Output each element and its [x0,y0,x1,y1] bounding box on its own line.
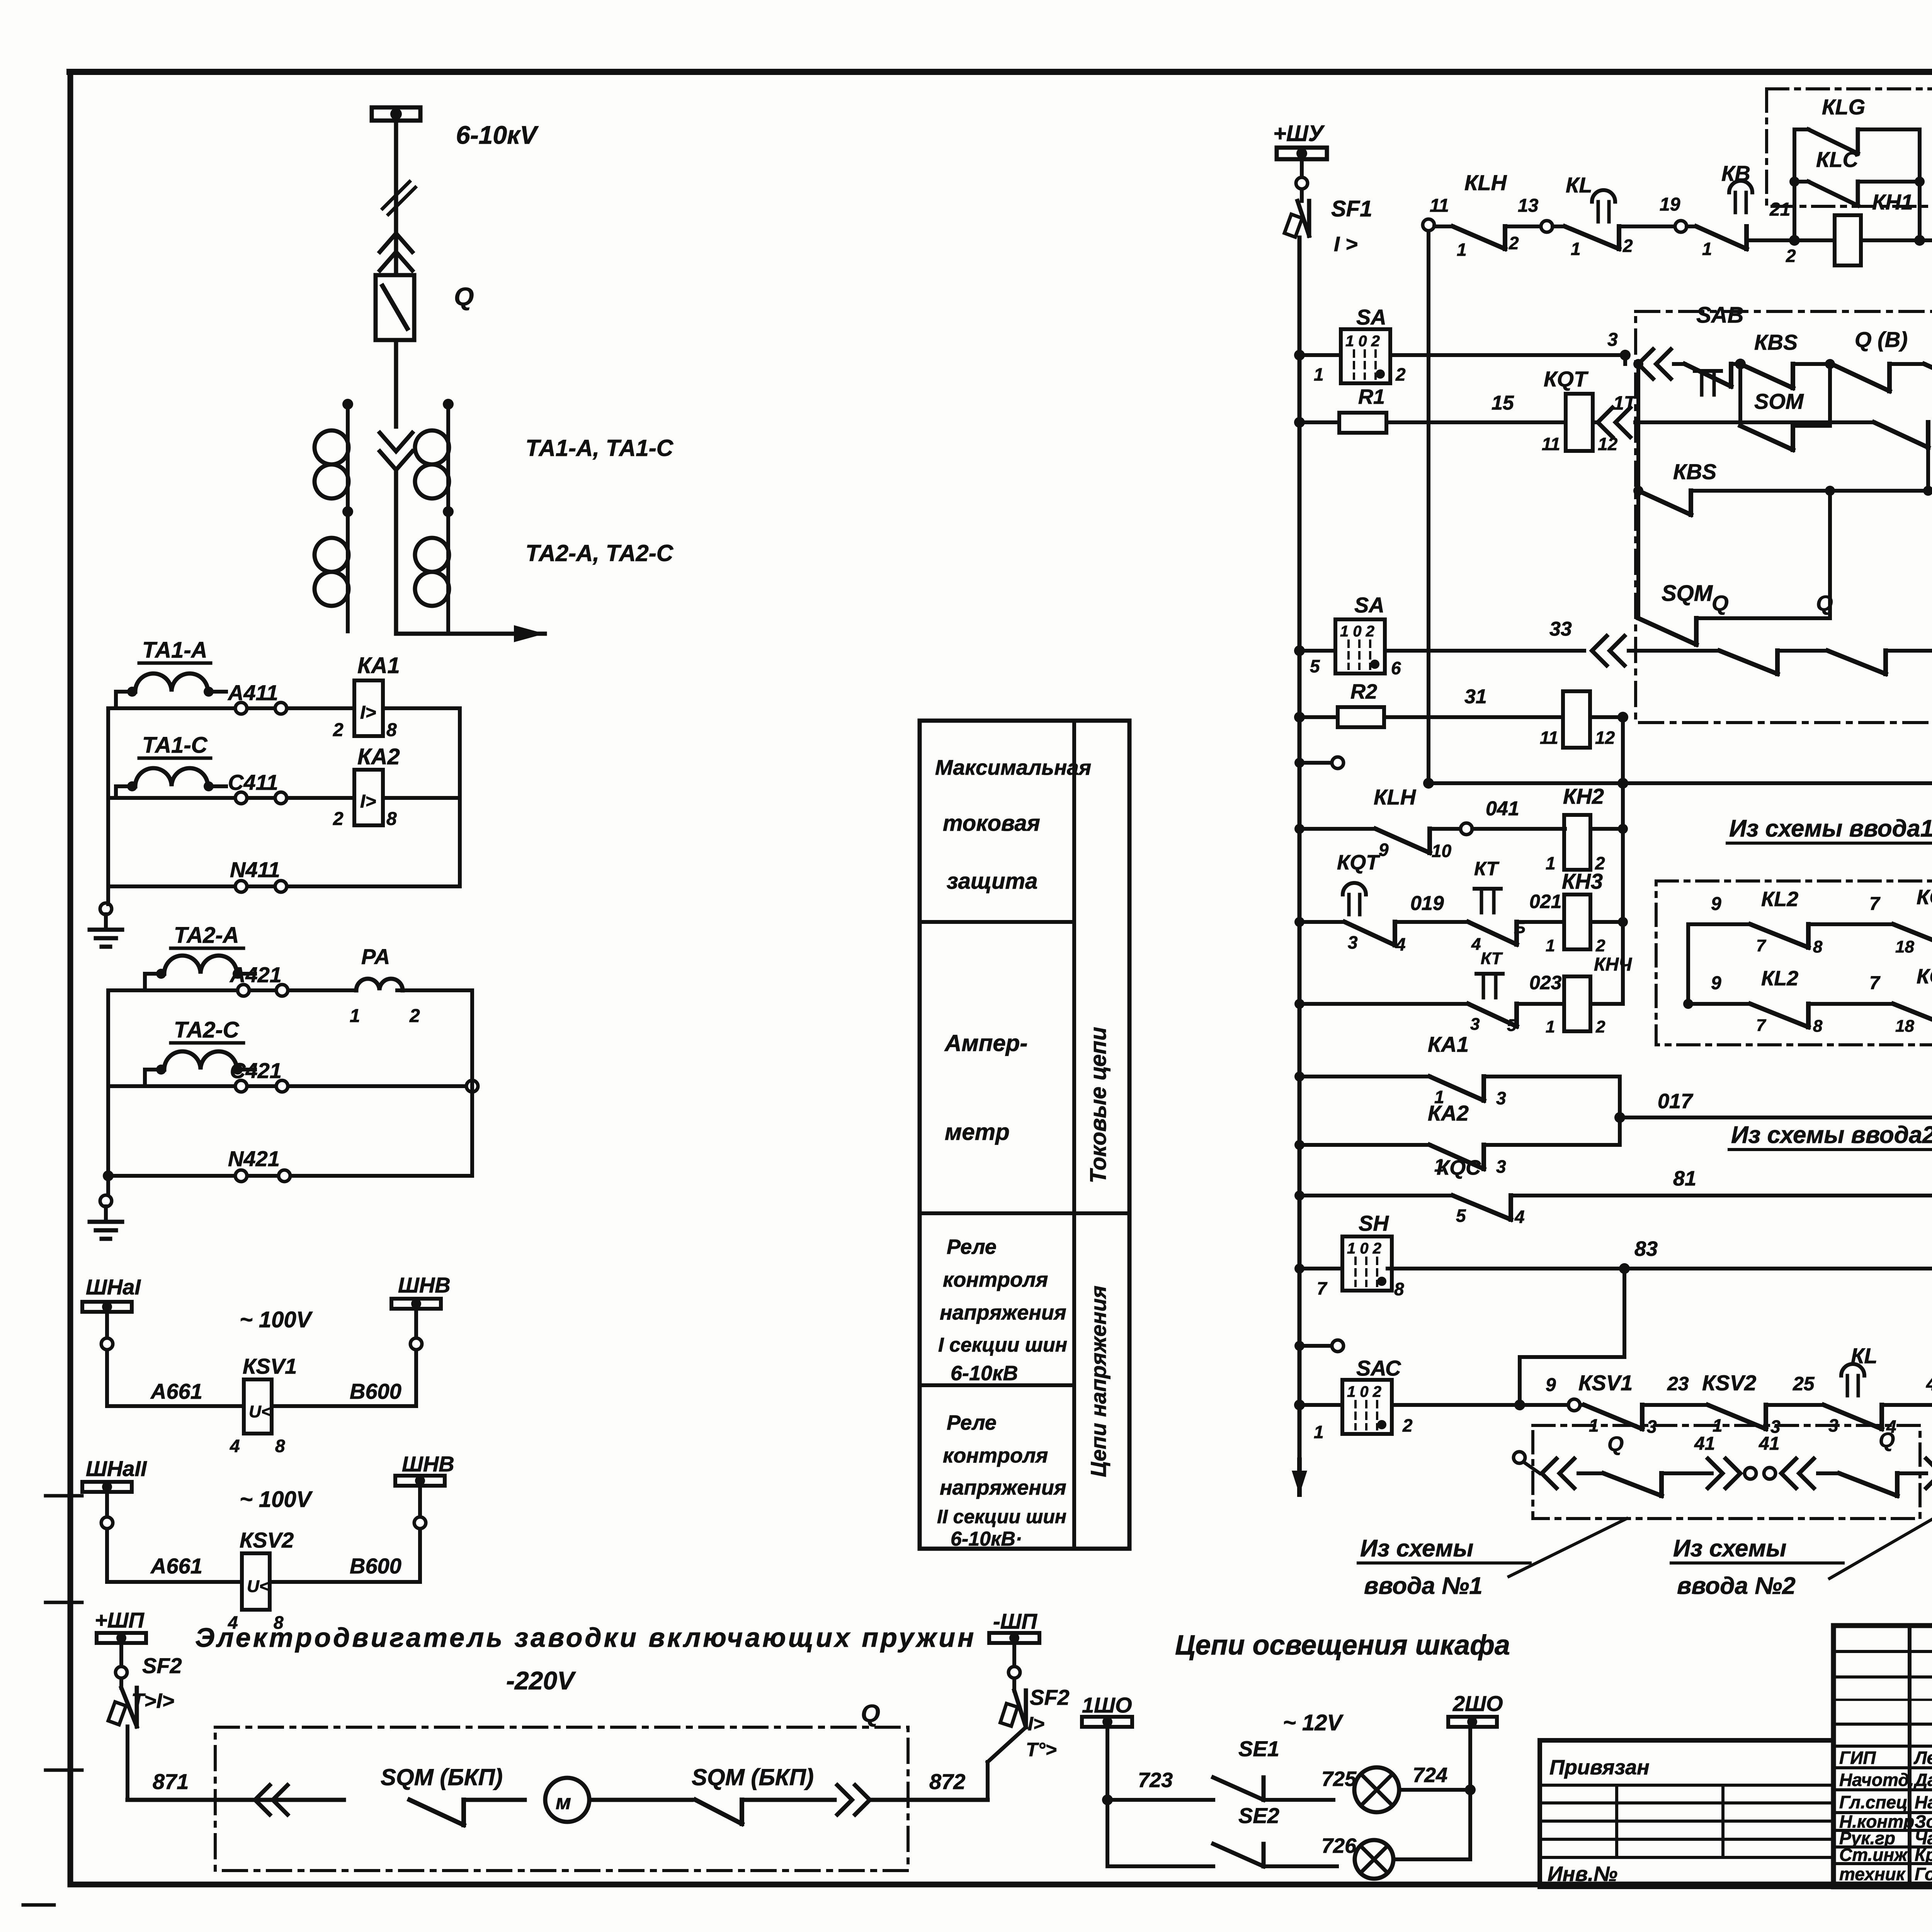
svg-text:9: 9 [1546,1375,1556,1395]
svg-text:021: 021 [1529,891,1561,912]
svg-text:8: 8 [1813,1017,1823,1036]
svg-text:1: 1 [1457,240,1467,260]
svg-text:КQТ: КQТ [1544,367,1589,391]
svg-text:7: 7 [1869,973,1881,993]
svg-text:1 0 2: 1 0 2 [1340,623,1374,640]
svg-text:41: 41 [1694,1434,1715,1454]
svg-text:А661: А661 [150,1379,202,1403]
svg-text:~ 100V: ~ 100V [240,1487,313,1512]
svg-text:43: 43 [1926,1373,1932,1395]
svg-text:23: 23 [1667,1373,1689,1395]
svg-text:КQ: КQ [1917,886,1932,909]
svg-text:Q: Q [1607,1432,1624,1456]
svg-text:ввода №2: ввода №2 [1677,1573,1796,1599]
svg-text:2: 2 [333,809,344,829]
svg-text:Гл.спец: Гл.спец [1839,1792,1908,1812]
svg-text:7: 7 [1756,936,1767,955]
svg-text:напряжения: напряжения [940,1476,1066,1499]
svg-text:11: 11 [1542,434,1560,454]
svg-text:Т°>: Т°> [1026,1739,1057,1760]
svg-text:КSV1: КSV1 [243,1354,297,1378]
svg-text:метр: метр [945,1119,1010,1145]
svg-text:SF2: SF2 [1030,1685,1070,1709]
svg-text:ТА2-С: ТА2-С [174,1017,240,1043]
svg-text:КL2: КL2 [1761,888,1798,911]
svg-text:Кравцова: Кравцова [1915,1845,1932,1865]
svg-text:Привязан: Привязан [1549,1756,1650,1779]
svg-text:ТА1-А: ТА1-А [142,638,207,663]
svg-text:017: 017 [1658,1090,1694,1113]
svg-text:8: 8 [1813,937,1823,956]
svg-text:Нашельский: Нашельский [1915,1792,1932,1812]
svg-text:ШНаI: ШНаI [86,1275,141,1299]
svg-text:Из схемы: Из схемы [1360,1535,1473,1562]
svg-text:КQТ: КQТ [1337,851,1380,874]
svg-text:1: 1 [1546,853,1556,873]
svg-text:1: 1 [1546,1017,1555,1036]
svg-text:81: 81 [1673,1167,1696,1190]
svg-text:8: 8 [386,720,397,740]
svg-text:КН2: КН2 [1563,784,1604,808]
svg-text:ШНВ: ШНВ [402,1452,454,1476]
svg-text:+ШП: +ШП [95,1608,145,1632]
svg-text:КQС: КQС [1437,1156,1481,1179]
svg-text:ТА2-А: ТА2-А [174,923,239,948]
svg-text:7: 7 [1869,894,1881,914]
svg-text:ТА2-А, ТА2-С: ТА2-А, ТА2-С [526,540,674,566]
svg-text:8: 8 [275,1436,285,1456]
svg-text:4: 4 [230,1436,240,1456]
svg-text:7: 7 [1756,1016,1767,1035]
svg-text:7: 7 [1317,1278,1328,1298]
svg-text:R1: R1 [1358,385,1385,408]
svg-text:КВS: КВS [1754,330,1798,354]
svg-text:2: 2 [1395,364,1406,384]
svg-text:U<: U< [249,1402,271,1421]
svg-text:токовая: токовая [943,811,1040,836]
svg-text:Цепи освещения шкафа: Цепи освещения шкафа [1175,1630,1510,1661]
svg-text:18: 18 [1895,937,1914,956]
svg-text:Реле: Реле [947,1235,997,1259]
svg-text:U<: U< [247,1577,269,1596]
svg-text:872: 872 [929,1769,965,1794]
svg-text:18: 18 [1895,1017,1914,1036]
svg-text:726: 726 [1321,1834,1357,1857]
svg-text:I>: I> [360,791,376,812]
svg-text:8: 8 [1394,1279,1404,1299]
svg-text:2: 2 [1595,1017,1605,1036]
svg-text:1: 1 [1546,936,1555,955]
svg-text:КА1: КА1 [1428,1032,1469,1056]
svg-text:КLС: КLС [1816,147,1859,172]
svg-text:N411: N411 [230,857,280,882]
svg-text:8: 8 [386,809,397,829]
svg-text:КН1: КН1 [1872,190,1913,214]
svg-text:SQМ: SQМ [1662,581,1713,606]
svg-text:I>: I> [360,702,376,723]
svg-text:SQМ (БКП): SQМ (БКП) [381,1764,503,1790]
svg-text:33: 33 [1549,618,1572,640]
svg-text:019: 019 [1410,892,1444,915]
svg-text:КSV2: КSV2 [240,1528,294,1552]
svg-text:1 0 2: 1 0 2 [1347,1383,1381,1400]
svg-text:11: 11 [1540,728,1558,748]
svg-text:ШНВ: ШНВ [398,1273,451,1297]
svg-text:Ст.инж: Ст.инж [1839,1845,1908,1865]
svg-text:13: 13 [1518,196,1539,216]
svg-text:Токовые цепи: Токовые цепи [1086,1027,1111,1184]
svg-text:1: 1 [1314,364,1324,384]
svg-text:31: 31 [1464,685,1487,708]
svg-text:1ШО: 1ШО [1082,1693,1132,1717]
svg-text:-220V: -220V [506,1666,576,1695]
svg-text:Максимальная: Максимальная [935,755,1091,779]
svg-text:25: 25 [1793,1373,1815,1395]
svg-text:А421: А421 [229,963,282,987]
svg-text:КА1: КА1 [357,653,400,678]
svg-text:5: 5 [1507,1016,1517,1035]
svg-text:2: 2 [409,1006,420,1026]
svg-text:1 0 2: 1 0 2 [1345,333,1380,350]
svg-text:Q: Q [1879,1429,1895,1452]
svg-text:724: 724 [1413,1764,1447,1787]
svg-text:КА2: КА2 [1428,1101,1469,1125]
svg-text:4: 4 [1514,1207,1525,1227]
svg-text:SF1: SF1 [1331,196,1372,221]
svg-text:ТА1-А, ТА1-С: ТА1-А, ТА1-С [526,435,674,461]
svg-text:725: 725 [1321,1767,1357,1791]
svg-text:SF2: SF2 [142,1653,182,1678]
svg-text:А661: А661 [150,1554,202,1578]
svg-text:С421: С421 [230,1058,282,1083]
svg-text:КLН: КLН [1374,785,1417,809]
svg-text:21: 21 [1769,199,1790,220]
svg-text:2: 2 [1622,236,1633,256]
svg-text:С411: С411 [228,770,278,794]
svg-text:Из схемы ввода2: Из схемы ввода2 [1731,1122,1932,1148]
svg-text:2: 2 [1786,246,1796,266]
svg-text:Леонов: Леонов [1913,1748,1932,1768]
svg-text:КSV2: КSV2 [1702,1371,1756,1395]
svg-text:1: 1 [1314,1422,1324,1442]
svg-text:I>: I> [1028,1713,1044,1735]
svg-text:КL2: КL2 [1761,967,1798,990]
svg-text:КА2: КА2 [357,744,400,769]
svg-text:А411: А411 [227,680,278,705]
svg-text:3: 3 [1496,1088,1506,1108]
svg-text:5: 5 [1310,656,1320,676]
svg-text:Инв.№: Инв.№ [1548,1862,1617,1886]
svg-text:11: 11 [1430,196,1449,216]
svg-text:723: 723 [1138,1769,1173,1792]
svg-text:I секции шин: I секции шин [938,1334,1067,1356]
svg-text:SА: SА [1354,593,1384,617]
svg-text:1: 1 [350,1006,360,1026]
svg-text:9: 9 [1711,973,1721,993]
svg-text:КSV1: КSV1 [1578,1371,1633,1395]
svg-text:В600: В600 [350,1379,401,1403]
svg-text:Из схемы ввода1: Из схемы ввода1 [1729,815,1932,842]
svg-text:контроля: контроля [943,1444,1048,1467]
svg-text:SАС: SАС [1356,1356,1401,1380]
svg-text:Q: Q [454,282,474,311]
svg-text:2ШО: 2ШО [1452,1691,1503,1716]
svg-text:871: 871 [153,1769,189,1794]
svg-text:N421: N421 [228,1146,280,1171]
svg-text:2: 2 [1595,936,1605,955]
svg-text:Электродвигатель заводки вкл: Электродвигатель заводки включающих пруж… [195,1622,976,1653]
svg-text:83: 83 [1634,1237,1658,1260]
svg-text:Ампер-: Ампер- [944,1030,1027,1056]
svg-text:6-10кВ·: 6-10кВ· [951,1528,1022,1550]
svg-text:3: 3 [1607,330,1618,350]
svg-text:SОМ: SОМ [1754,389,1804,413]
svg-text:Реле: Реле [947,1411,997,1434]
svg-text:2: 2 [1509,233,1519,253]
svg-text:+ШУ: +ШУ [1273,121,1325,146]
svg-text:R2: R2 [1350,680,1377,703]
svg-text:Давыдов: Давыдов [1913,1770,1932,1790]
svg-text:1 0 2: 1 0 2 [1347,1240,1381,1257]
svg-text:5: 5 [1456,1206,1466,1226]
svg-text:2: 2 [333,720,344,740]
svg-text:Q (В): Q (В) [1855,327,1908,352]
svg-text:I >: I > [1334,233,1358,256]
svg-text:4: 4 [1395,934,1406,954]
svg-text:041: 041 [1486,798,1519,820]
svg-text:SА: SА [1356,305,1386,329]
svg-text:2: 2 [1402,1415,1413,1435]
svg-text:Б: Б [1514,918,1526,937]
svg-text:6-10кВ: 6-10кВ [951,1362,1018,1385]
svg-text:В600: В600 [350,1554,401,1578]
svg-text:6: 6 [1391,658,1401,678]
svg-text:6-10кV: 6-10кV [456,121,539,149]
svg-text:1: 1 [1702,239,1712,259]
svg-text:-ШП: -ШП [993,1609,1037,1633]
svg-text:SЕ1: SЕ1 [1238,1736,1279,1761]
svg-text:9: 9 [1379,840,1389,860]
svg-text:3: 3 [1348,932,1358,952]
svg-text:Из схемы: Из схемы [1673,1535,1786,1562]
svg-text:КQ: КQ [1917,965,1932,988]
svg-text:4: 4 [1471,935,1481,954]
svg-text:15: 15 [1492,392,1514,414]
svg-text:SQМ (БКП): SQМ (БКП) [692,1764,814,1790]
svg-text:ШНаII: ШНаII [86,1456,147,1481]
svg-text:м: м [556,1791,571,1814]
svg-text:Q: Q [1712,591,1729,615]
svg-text:Цепи напряжения: Цепи напряжения [1086,1286,1111,1477]
svg-text:РА: РА [361,944,390,969]
svg-text:3: 3 [1496,1156,1506,1177]
svg-text:Горстка: Горстка [1915,1864,1932,1884]
svg-text:SЕ2: SЕ2 [1238,1803,1279,1828]
svg-text:~ 12V: ~ 12V [1283,1710,1344,1735]
svg-text:Начотд.: Начотд. [1839,1770,1914,1790]
svg-text:12: 12 [1595,728,1615,748]
svg-text:SАВ: SАВ [1696,303,1743,328]
svg-text:~ 100V: ~ 100V [240,1307,313,1332]
svg-text:II секции шин: II секции шин [937,1506,1066,1527]
svg-text:ввода №1: ввода №1 [1364,1573,1483,1599]
svg-text:10: 10 [1432,841,1452,861]
svg-text:КТ: КТ [1474,858,1500,879]
svg-text:КНЧ: КНЧ [1594,954,1632,975]
svg-text:КН3: КН3 [1562,869,1603,893]
svg-text:1: 1 [1571,239,1581,259]
svg-text:023: 023 [1529,972,1562,993]
svg-text:ТА1-С: ТА1-С [142,733,208,758]
svg-text:19: 19 [1660,194,1680,215]
svg-text:Q: Q [1816,591,1833,615]
svg-text:SН: SН [1359,1211,1389,1235]
svg-text:9: 9 [1711,894,1721,914]
svg-text:защита: защита [947,869,1037,894]
svg-text:КL: КL [1566,173,1592,197]
svg-text:КВS: КВS [1673,459,1716,484]
svg-text:41: 41 [1759,1434,1779,1454]
svg-text:КТ: КТ [1481,949,1503,968]
svg-text:техник: техник [1839,1864,1906,1884]
svg-text:контроля: контроля [943,1268,1048,1291]
svg-text:напряжения: напряжения [940,1301,1066,1324]
svg-text:КLН: КLН [1464,170,1507,195]
svg-text:КLG: КLG [1822,95,1865,119]
svg-text:Q: Q [861,1699,880,1727]
svg-text:ГИП: ГИП [1839,1748,1876,1768]
svg-text:3: 3 [1470,1015,1480,1034]
